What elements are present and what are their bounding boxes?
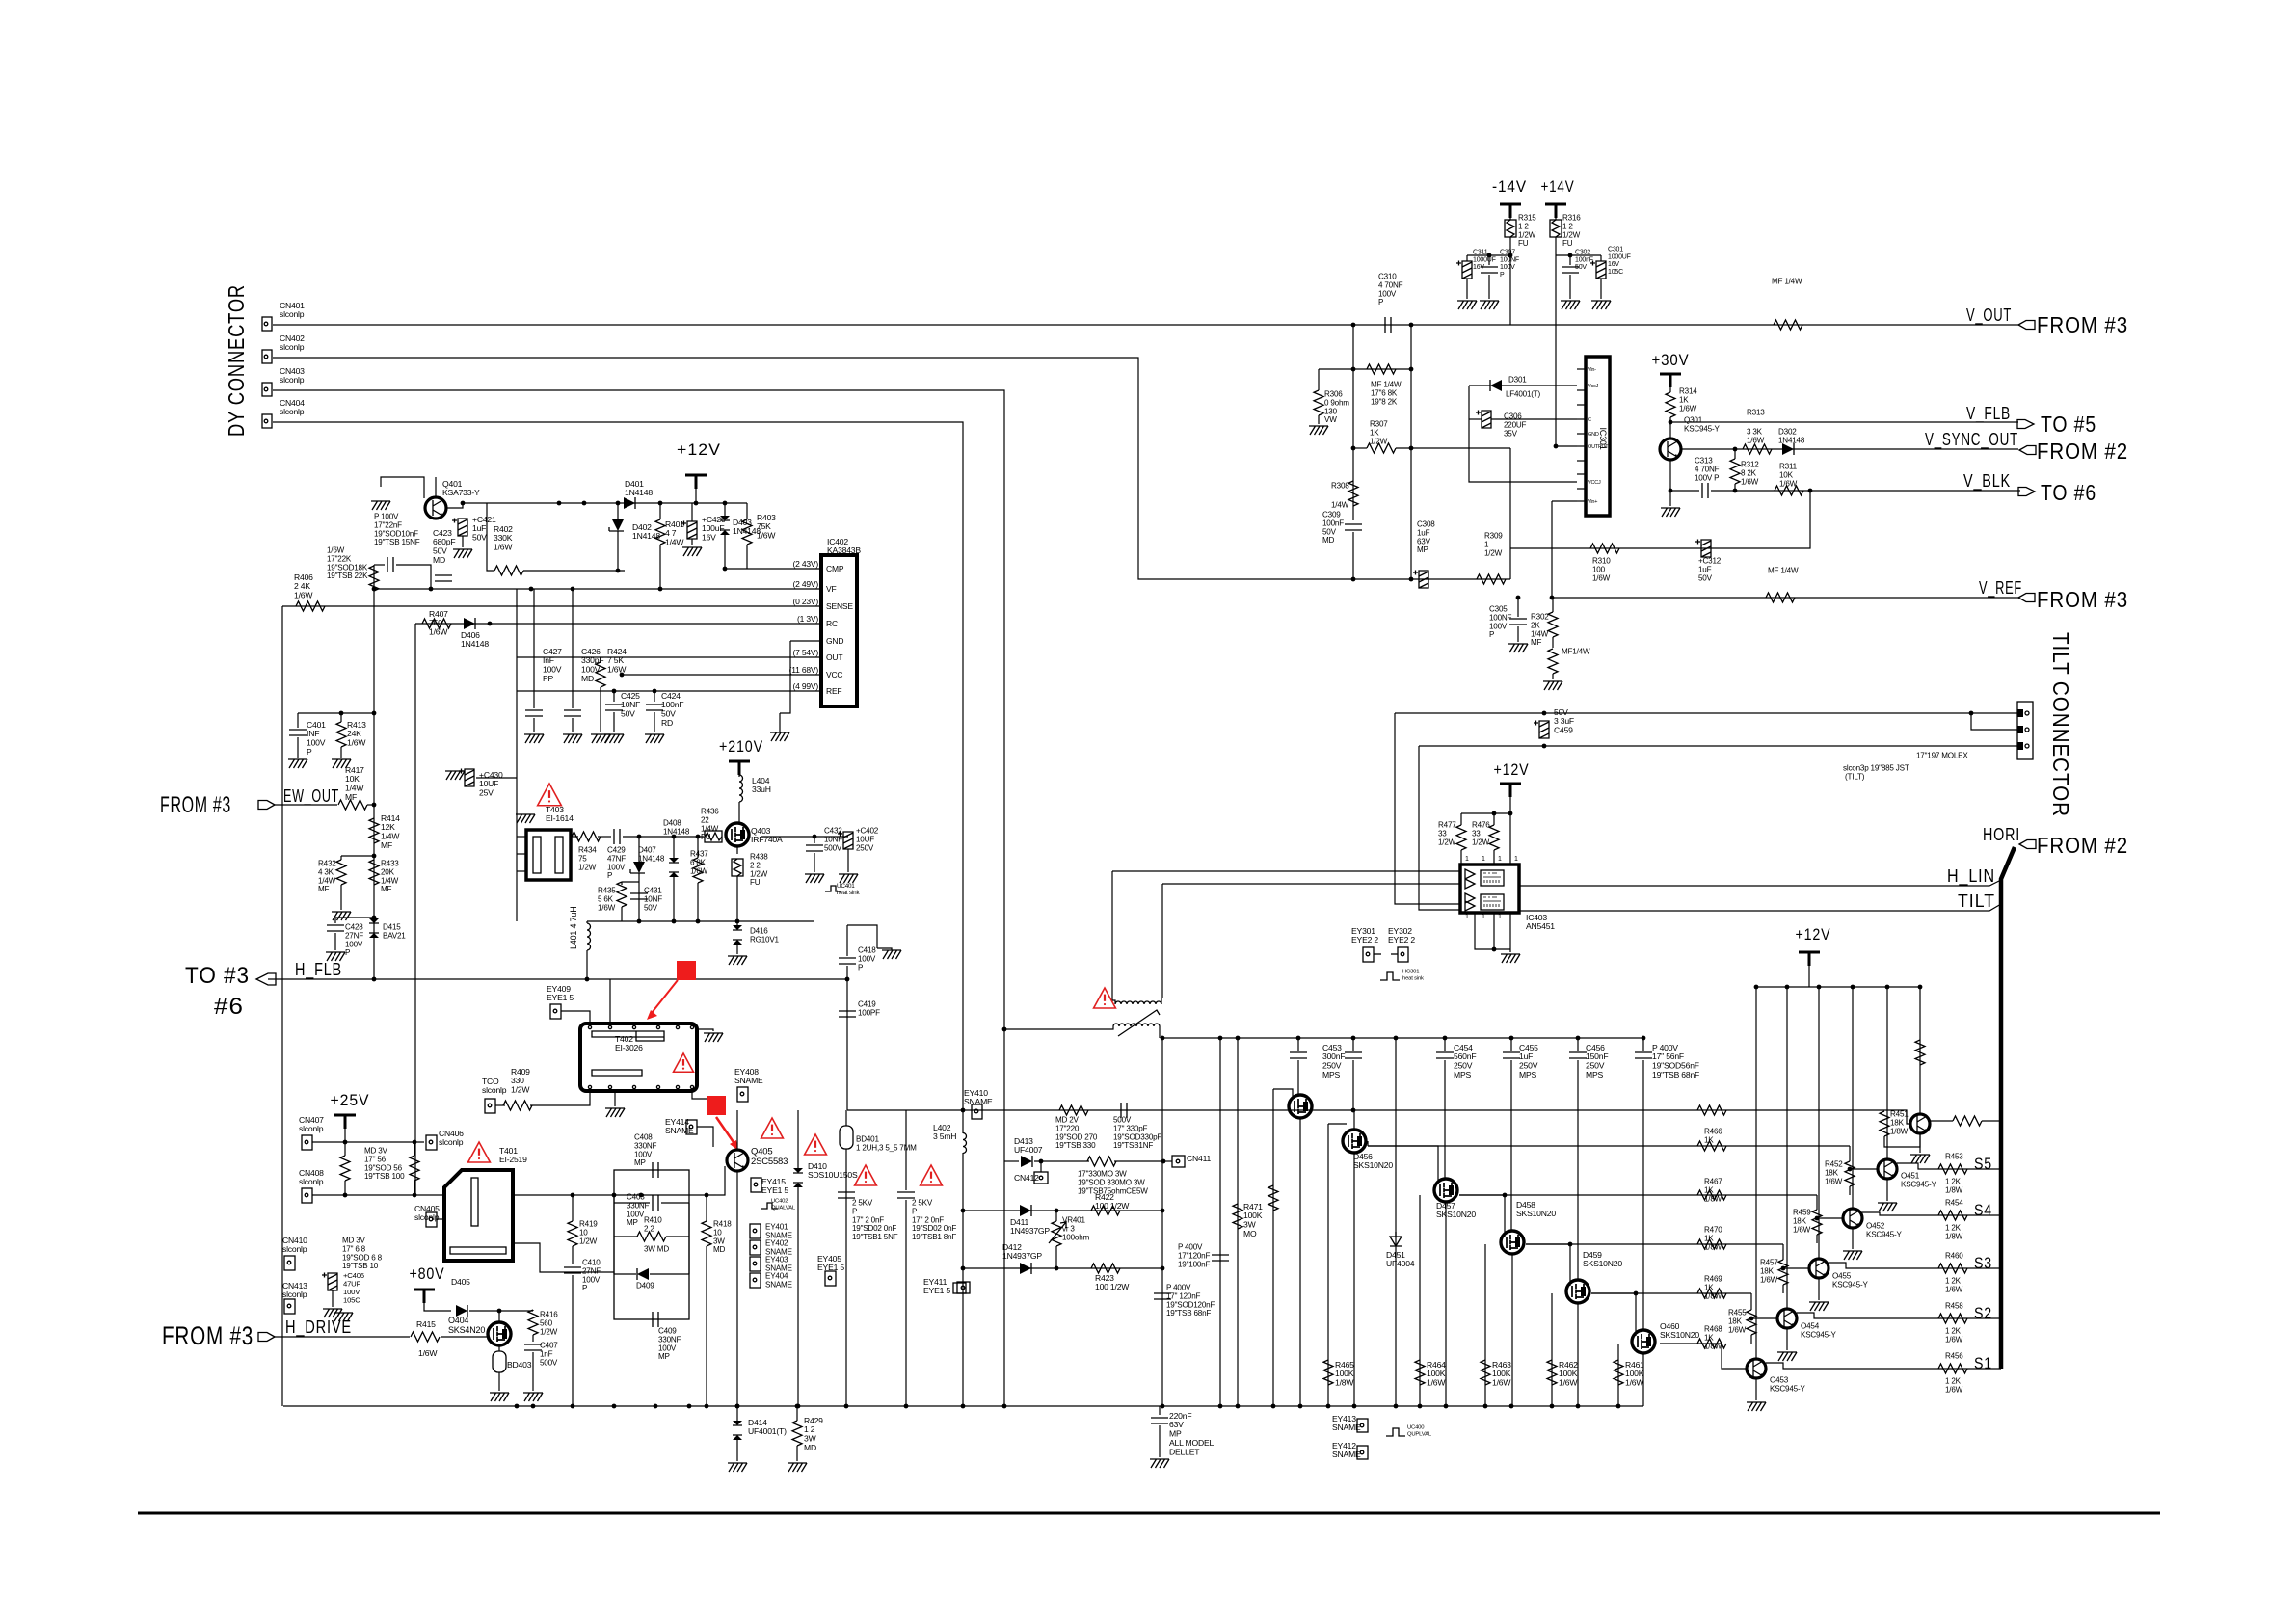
svg-text:1: 1 xyxy=(1498,914,1502,920)
resistor R455 18K xyxy=(1747,1310,1756,1335)
wire C418 junction xyxy=(846,966,848,1110)
resistor R470 1K xyxy=(1697,1239,1726,1249)
ground Q453 xyxy=(1755,1379,1757,1400)
wire coil1 left vert xyxy=(1111,871,1113,1000)
svg-text:GND: GND xyxy=(1588,432,1599,438)
svg-text:CN406slconlp: CN406slconlp xyxy=(439,1129,464,1147)
wire c403 r xyxy=(661,1202,689,1204)
wire d458 drain row to d459 gate xyxy=(1526,1244,1570,1286)
svg-text:+12V: +12V xyxy=(1494,760,1530,779)
wire V_BLK branch down xyxy=(1510,491,1810,548)
wire D410 top xyxy=(797,1110,799,1168)
svg-text:R415: R415 xyxy=(416,1319,436,1329)
capacitor C402 10UF 250V xyxy=(838,832,853,850)
svg-text:+14V: +14V xyxy=(1541,177,1575,196)
wire Q403 bottom rail xyxy=(587,920,814,922)
svg-text:CN404slconlp: CN404slconlp xyxy=(280,398,305,416)
resistor R311 10K xyxy=(1775,486,1803,495)
wire x1541 vertical R463 xyxy=(1484,1244,1486,1406)
ground T402 bottom xyxy=(614,1091,616,1106)
wire IC403 in2 xyxy=(1162,883,1460,885)
resistor MF below xyxy=(1548,649,1558,674)
wire coil2 right vert xyxy=(1161,884,1163,998)
ground Q452 xyxy=(1852,1229,1854,1249)
svg-text:EY411EYE1 5: EY411EYE1 5 xyxy=(923,1277,950,1295)
wire C459 col down1 xyxy=(1395,713,1460,904)
connector CN404 xyxy=(262,414,272,428)
svg-text:1/4W: 1/4W xyxy=(1331,501,1349,510)
resistor R409 body xyxy=(503,1101,532,1110)
resistor R462 100K xyxy=(1547,1360,1557,1385)
svg-text:EY301EYE2 2: EY301EYE2 2 xyxy=(1351,926,1378,945)
svg-text:R462100K1/6W: R462100K1/6W xyxy=(1559,1360,1578,1388)
svg-text:-14V: -14V xyxy=(1492,177,1527,196)
capacitor C459 3 3uF xyxy=(1534,721,1549,739)
capacitor C4xx mid xyxy=(435,575,452,581)
svg-text:GND: GND xyxy=(826,636,843,646)
resistor MD3V 100 col2 xyxy=(410,1156,419,1181)
wire S verticals xyxy=(1919,987,1921,1113)
resistor R407 body xyxy=(422,619,451,628)
MOSFET Q455 first xyxy=(1296,1036,1301,1041)
svg-text:TO #6: TO #6 xyxy=(2041,480,2096,505)
svg-text:FROM #3: FROM #3 xyxy=(160,792,231,818)
wire TILT mid pin xyxy=(1971,713,2017,730)
resistor R461 100K xyxy=(1614,1360,1623,1385)
svg-text:D301: D301 xyxy=(1508,376,1527,385)
svg-text:CN401slconlp: CN401slconlp xyxy=(280,301,305,319)
wire base row y1151 ext xyxy=(1702,1110,1910,1124)
wire S1 row xyxy=(1766,1363,2001,1369)
resistor R406 body xyxy=(296,601,325,611)
svg-text:EY405EYE1 5: EY405EYE1 5 xyxy=(817,1254,844,1272)
resistor row y383 xyxy=(1353,368,1411,370)
capacitor 220nF column xyxy=(1159,1406,1161,1415)
svg-text:R461100K1/6W: R461100K1/6W xyxy=(1625,1360,1644,1388)
wire REF line xyxy=(517,690,821,692)
svg-text:1: 1 xyxy=(1514,856,1518,863)
wire x1448 vertical xyxy=(1395,1038,1397,1406)
arrow HORI xyxy=(2019,840,2036,849)
wire base row3 y1240 xyxy=(1459,1194,1817,1196)
wire base row2 y1189 xyxy=(1368,1145,1850,1147)
svg-text:H_FLB: H_FLB xyxy=(295,960,342,980)
capacitor C424 100nF xyxy=(654,691,655,702)
resistor R315 1 2 FU xyxy=(1505,220,1516,237)
wire c422 right xyxy=(396,565,431,589)
diode D402 body xyxy=(612,519,624,531)
diode D416 RG10V1 xyxy=(733,925,742,945)
svg-text:+210V: +210V xyxy=(719,737,763,756)
resistor R453 1 2K xyxy=(1938,1164,1967,1174)
resistor R432 4 3K xyxy=(341,855,374,857)
wire S top rail xyxy=(1756,986,1920,988)
arrow V_BLK xyxy=(2018,488,2035,496)
capacitor C311 1000UF xyxy=(1456,261,1472,279)
capacitor C306 220UF xyxy=(1476,411,1491,429)
transistor Q301 KSC945-Y xyxy=(1660,439,1681,460)
svg-text:C4551uF250VMPS: C4551uF250VMPS xyxy=(1519,1043,1538,1079)
resistor MD3V 56 col1 xyxy=(340,1156,350,1181)
resistor R416 560 xyxy=(528,1310,538,1335)
diode D410 SDS10U150S xyxy=(793,1168,803,1187)
wire T401 right top xyxy=(513,1194,675,1196)
wire C418 top link xyxy=(847,925,877,948)
warning triangle cap2 xyxy=(921,1165,943,1185)
diode D302 1N4148 xyxy=(1782,443,1794,455)
capacitor C305 100NF xyxy=(1509,619,1527,625)
arrow V_REF xyxy=(2018,594,2035,602)
wire q452 base xyxy=(1817,1217,1843,1219)
wire x1284 vertical xyxy=(1237,1038,1239,1406)
wire x536 vertical xyxy=(516,589,518,921)
capacitor 330pF row xyxy=(1121,1103,1127,1118)
resistor R465 100K xyxy=(1323,1360,1333,1385)
capacitor C454 xyxy=(1443,1036,1448,1041)
capacitor C455 xyxy=(1509,1036,1514,1041)
wire S5 row xyxy=(1897,1163,2001,1169)
wire x1610 vertical R462 xyxy=(1551,1293,1553,1406)
resistor R415 xyxy=(411,1332,440,1342)
capacitor P400V 120nF col xyxy=(1212,1255,1229,1261)
inductor coil1 xyxy=(1115,1001,1161,1004)
wire +12V stem xyxy=(695,489,697,503)
wire cap2 top xyxy=(905,1110,907,1190)
wire left vertical x293 xyxy=(281,606,283,1406)
resistor R433 20K xyxy=(369,860,379,885)
wire V_SYNC_OUT xyxy=(1681,448,2018,450)
resistor R403 body xyxy=(742,519,752,545)
wire R bus xyxy=(1461,812,1510,814)
svg-text:D405: D405 xyxy=(451,1277,470,1287)
resistor base row1 xyxy=(1697,1105,1726,1115)
wire q451 base xyxy=(1850,1168,1878,1170)
wire cap2 bot xyxy=(905,1200,907,1406)
svg-text:RC: RC xyxy=(826,619,838,628)
wire BD401 bot xyxy=(845,1149,847,1406)
ground Q451a xyxy=(1919,1134,1921,1153)
power +210V xyxy=(729,761,750,775)
wire +25V stem xyxy=(344,1129,346,1142)
resistor R467 1K xyxy=(1697,1190,1726,1200)
wire VF line xyxy=(374,588,821,590)
ground Q301 xyxy=(1669,491,1671,506)
capacitor C420 100uF 16V xyxy=(681,521,697,540)
warning triangle coil xyxy=(1094,988,1116,1008)
capacitor 2 5KV cap1 xyxy=(838,1192,855,1198)
svg-text:1/6W: 1/6W xyxy=(418,1348,438,1358)
svg-text:+25V: +25V xyxy=(331,1091,370,1109)
ground Q454 xyxy=(1786,1329,1788,1350)
resistor R313 body xyxy=(1743,444,1772,454)
svg-text:EY302EYE2 2: EY302EYE2 2 xyxy=(1388,926,1415,945)
wire IC403 out TILT xyxy=(1519,904,2001,911)
capacitor C456 xyxy=(1576,1036,1581,1041)
svg-text:VF: VF xyxy=(826,584,836,594)
wire D411 row xyxy=(963,1210,1162,1211)
warning triangle T401 xyxy=(468,1142,491,1162)
svg-text:17"197 MOLEX: 17"197 MOLEX xyxy=(1916,752,1968,760)
resistor R438 2 2 FU xyxy=(732,859,743,876)
diode D406 1N4148 xyxy=(464,618,475,629)
wire EY414 link xyxy=(697,1127,713,1147)
wire IC301 gnd pin xyxy=(1556,445,1577,447)
svg-text:V_BLK: V_BLK xyxy=(1963,471,2011,492)
svg-text:1 2K1/8W: 1 2K1/8W xyxy=(1945,1224,1963,1241)
resistor R419 10 xyxy=(568,1221,577,1246)
capacitor C401 INF xyxy=(297,713,299,728)
wire C430 link xyxy=(476,777,517,779)
resistor R413 24K xyxy=(298,712,374,714)
wire T402 to EY408 xyxy=(692,1091,721,1099)
resistor MD2V 220 row xyxy=(1059,1105,1088,1115)
power +12V right xyxy=(1799,952,1820,966)
svg-text:Vin+: Vin+ xyxy=(1588,499,1597,505)
connector DN411 xyxy=(1172,1156,1185,1167)
svg-text:S5: S5 xyxy=(1974,1155,1992,1173)
capacitor C419 100PF xyxy=(839,1011,856,1017)
wire R402 loop xyxy=(487,503,494,571)
wire IC403 in1 xyxy=(1112,870,1460,872)
svg-text:+30V: +30V xyxy=(1652,351,1690,369)
wire x1464 to bottom xyxy=(1410,448,1412,579)
cylinder BD401 xyxy=(840,1126,853,1149)
inductor L404 33uH xyxy=(739,775,743,802)
resistor R468 1K xyxy=(1697,1339,1726,1348)
svg-text:TO #5: TO #5 xyxy=(2041,412,2096,437)
connector CN401 xyxy=(262,317,272,331)
IC403 bottom pins xyxy=(1475,913,1510,949)
svg-text:1: 1 xyxy=(1498,856,1502,863)
red square 1 xyxy=(677,961,696,980)
svg-text:TO #3: TO #3 xyxy=(185,963,250,989)
resistor R308 xyxy=(1348,481,1358,506)
resistor R457 18K xyxy=(1778,1260,1788,1285)
capacitor C431 10NF xyxy=(630,893,648,899)
capacitor C432 10NF 500V xyxy=(814,837,815,843)
MOSFET Q403 IRF740A xyxy=(726,823,749,846)
MOSFET Q404 SKS4N20 xyxy=(488,1322,511,1345)
capacitor C302 100nF xyxy=(1562,267,1579,273)
diode D403 body xyxy=(720,516,730,535)
IC IC403 AN5451 xyxy=(1460,865,1519,913)
resistor R404 vertical xyxy=(369,566,379,591)
svg-text:CN413slconlp: CN413slconlp xyxy=(282,1281,307,1299)
wire CN407 row xyxy=(312,1141,424,1143)
warning triangle T402 xyxy=(674,1053,694,1072)
svg-text:L40433uH: L40433uH xyxy=(752,776,771,794)
ground C420 xyxy=(682,547,702,556)
svg-text:3W MD: 3W MD xyxy=(644,1245,669,1254)
svg-text:H_LIN: H_LIN xyxy=(1947,866,1995,887)
svg-text:1: 1 xyxy=(1482,914,1485,920)
svg-text:R458: R458 xyxy=(1945,1302,1963,1311)
svg-text:CMP: CMP xyxy=(826,564,844,573)
svg-text:FROM #3: FROM #3 xyxy=(2037,587,2128,612)
transistor Q455 KSC945-Y S3 xyxy=(1809,1259,1829,1278)
svg-text:S1: S1 xyxy=(1974,1354,1992,1372)
wire x1464 vertical xyxy=(1410,325,1412,448)
border bottom line xyxy=(138,1512,2160,1515)
svg-text:V_OUT: V_OUT xyxy=(1966,306,2012,326)
wire x1679 vertical R461 xyxy=(1617,1344,1619,1406)
resistor MF V_REF xyxy=(1766,593,1795,602)
svg-text:1: 1 xyxy=(1482,856,1485,863)
svg-text:BD403: BD403 xyxy=(507,1360,532,1370)
svg-text:S2: S2 xyxy=(1974,1304,1992,1322)
resistor R452 18K xyxy=(1845,1161,1855,1186)
svg-text:V_REF: V_REF xyxy=(1979,578,2022,599)
svg-text:V_SYNC_OUT: V_SYNC_OUT xyxy=(1925,430,2018,450)
resistor R312 8 2K xyxy=(1730,459,1740,484)
resistor out row1 xyxy=(1953,1116,1982,1126)
wire Q301 emitter xyxy=(1670,460,1699,491)
svg-text:H_DRIVE: H_DRIVE xyxy=(285,1317,352,1338)
resistor R423 100 xyxy=(1091,1264,1120,1273)
svg-text:TILT: TILT xyxy=(1958,891,1995,911)
svg-text:C43210NF500V: C43210NF500V xyxy=(824,827,842,853)
heatsink UC401 xyxy=(825,886,841,891)
resistor R429 1 2 3W xyxy=(792,1421,802,1446)
svg-text:OUTPUT: OUTPUT xyxy=(1588,444,1609,450)
capacitor C409 330NF xyxy=(653,1312,658,1327)
wire RC line xyxy=(415,623,821,625)
diode D401 body xyxy=(624,497,635,509)
capacitor P400V 56nF xyxy=(1642,1036,1646,1041)
svg-text:(1 3V): (1 3V) xyxy=(797,614,818,624)
connector TILT 3pin xyxy=(2017,702,2033,759)
heatsink HC301 xyxy=(1380,972,1400,980)
wire Q405 collector xyxy=(736,1110,738,1150)
wire x1321 vertical xyxy=(1272,1089,1274,1406)
wire V_REF xyxy=(1552,597,2018,599)
ground Q451 xyxy=(1886,1180,1888,1201)
resistor R477 33 xyxy=(1456,825,1466,850)
resistor R456 1 2K xyxy=(1938,1364,1967,1373)
resistor R463 100K xyxy=(1481,1360,1490,1385)
svg-text:MF 1/4W: MF 1/4W xyxy=(1772,278,1802,286)
diode D411 1N4937GP xyxy=(1020,1205,1031,1216)
wire base row4 y1291 xyxy=(1526,1243,1783,1245)
svg-text:R460: R460 xyxy=(1945,1252,1963,1261)
wire box connections xyxy=(613,1195,615,1274)
heatsink UC402 xyxy=(761,1203,778,1209)
svg-text:FROM #3: FROM #3 xyxy=(162,1321,254,1350)
svg-text:FROM #2: FROM #2 xyxy=(2037,833,2128,858)
capacitor C309 100nF xyxy=(1345,524,1362,530)
wire D410 bot xyxy=(797,1187,799,1406)
diode D413 body xyxy=(1021,1156,1032,1167)
resistor R310 100 xyxy=(1590,544,1619,553)
transistor Q451 KSC945-Y S5 xyxy=(1878,1159,1897,1179)
resistor R458 1 2K xyxy=(1938,1314,1967,1323)
variable resistor VR401 xyxy=(1052,1221,1061,1246)
wire GND pin stub xyxy=(790,640,821,642)
wire S3 row xyxy=(1829,1263,2001,1268)
wire TILT line2 xyxy=(1419,745,2017,747)
T402 pins xyxy=(588,1025,591,1028)
wire rail y1152 xyxy=(847,1109,1702,1111)
resistor R451 body xyxy=(1880,1111,1889,1136)
svg-text:1: 1 xyxy=(1465,856,1469,863)
wire VccJ xyxy=(1509,448,1511,579)
wire Q401 collector row xyxy=(435,477,437,497)
power +30V xyxy=(1660,374,1681,387)
resistor R410 2 2 xyxy=(637,1232,666,1241)
resistor R402 body xyxy=(494,566,523,575)
wire T401 right bottom xyxy=(513,1243,614,1272)
svg-text:CN403slconlp: CN403slconlp xyxy=(280,366,305,385)
wire IC301 left col xyxy=(1469,386,1577,482)
wire +12V right stem xyxy=(1808,966,1810,987)
resistor top col xyxy=(1915,1040,1925,1065)
svg-text:+12V: +12V xyxy=(1796,925,1831,944)
svg-text:CN408slconlp: CN408slconlp xyxy=(299,1168,324,1186)
transistor Q451a xyxy=(1910,1114,1930,1133)
network box C408 C403 R410 D409 C409 xyxy=(614,1170,689,1319)
ground near +80V xyxy=(334,1313,353,1321)
wire q454 base xyxy=(1751,1317,1777,1319)
wire Q405 emitter xyxy=(736,1171,738,1406)
inductor coil2 variable xyxy=(1113,1024,1160,1026)
resistor R434 75 xyxy=(572,832,601,841)
svg-text:+80V: +80V xyxy=(410,1264,445,1283)
warning triangle T403 xyxy=(538,784,562,806)
wire to q453 xyxy=(1722,1344,1747,1369)
resistor R469 1K xyxy=(1697,1289,1726,1298)
red arrow 2 xyxy=(716,1117,735,1145)
ground IC402 xyxy=(770,732,789,741)
resistor R454 1 2K xyxy=(1938,1211,1967,1220)
diode D301 LF4001 xyxy=(1490,380,1502,391)
wire base row5 y1342 xyxy=(1591,1292,1751,1294)
power +12V mid xyxy=(1500,784,1521,797)
svg-text:OUT: OUT xyxy=(826,652,842,662)
capacitor C312 1uF xyxy=(1695,540,1711,558)
power +14V xyxy=(1545,204,1566,218)
wire x1266 vertical xyxy=(1219,1038,1221,1406)
MOSFET D460 SKS10N20 xyxy=(1632,1330,1655,1353)
heatsink UC400 xyxy=(1386,1428,1405,1436)
diode D409 xyxy=(637,1268,649,1280)
red square 2 xyxy=(707,1096,726,1115)
svg-text:TILT CONNECTOR: TILT CONNECTOR xyxy=(2048,632,2073,817)
inductor L401 4 7uH xyxy=(587,923,591,950)
resistor R472 xyxy=(1268,1185,1278,1211)
capacitor C307 100NF xyxy=(1481,267,1498,273)
ground Q401 base xyxy=(371,501,390,510)
capacitor P400V 120nF col2 xyxy=(1154,1293,1171,1299)
MOSFET D458 SKS10N20 xyxy=(1501,1231,1524,1254)
transistor Q401 KSA733-Y xyxy=(425,497,446,519)
svg-text:1 2K1/6W: 1 2K1/6W xyxy=(1945,1277,1963,1294)
capacitor C427 1nF xyxy=(533,589,535,708)
capacitor C453 xyxy=(1351,1036,1356,1041)
wire V_BLK xyxy=(1711,490,2020,492)
capacitor C422 22nF xyxy=(387,557,393,572)
svg-text:LF4001(T): LF4001(T) xyxy=(1506,390,1540,399)
diode D412 1N4937GP xyxy=(1020,1263,1031,1274)
wire Q403 drain right xyxy=(761,836,848,838)
resistor R417 body xyxy=(338,800,367,810)
svg-text:VccJ: VccJ xyxy=(1588,384,1599,389)
transistor Q453 KSC945-Y S1 xyxy=(1747,1359,1766,1378)
svg-text:R402330K1/6W: R402330K1/6W xyxy=(494,524,513,552)
svg-text:(11 68V): (11 68V) xyxy=(789,665,819,675)
wire q455 gate xyxy=(1273,1089,1293,1097)
svg-text:(2 43V): (2 43V) xyxy=(793,559,819,569)
wire Q401 base xyxy=(381,477,424,498)
